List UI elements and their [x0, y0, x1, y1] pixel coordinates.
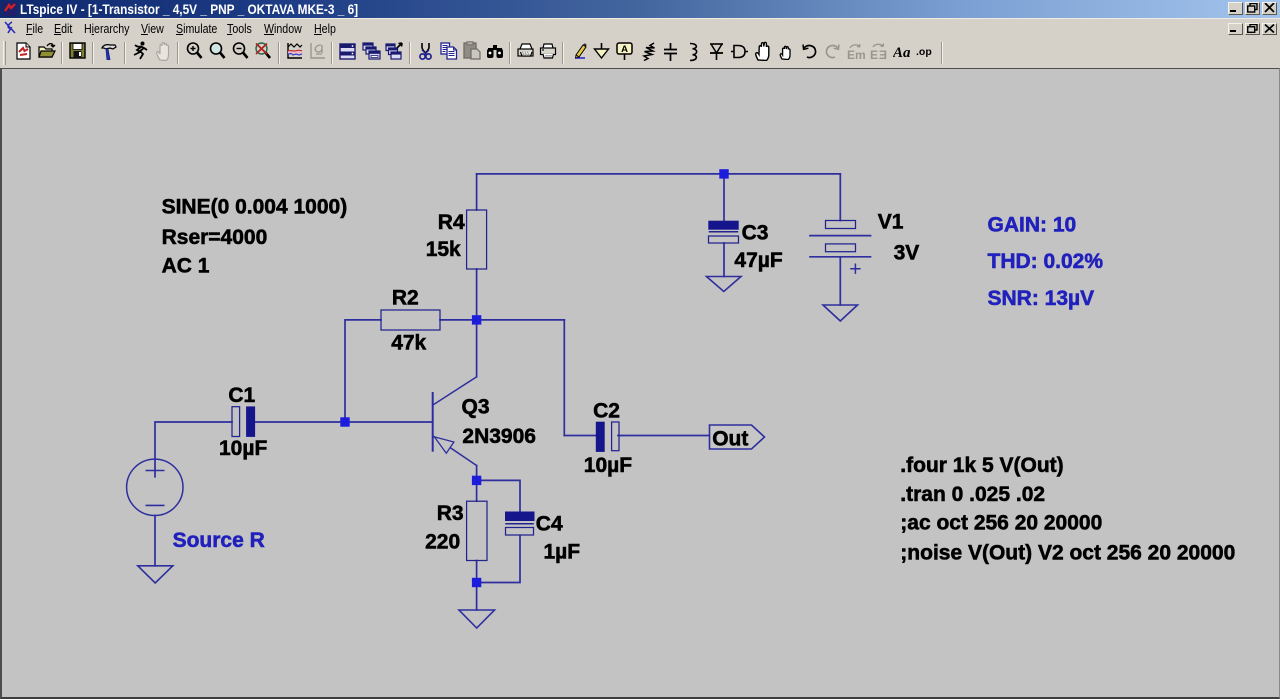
wire R2 right lead [440, 319, 477, 321]
wire to C2 left plate [564, 435, 595, 437]
wire C4 bottom to node F [477, 535, 520, 582]
resistor R4 [467, 210, 487, 269]
component gate icon [730, 44, 749, 59]
wire R4 bottom to node B [476, 269, 478, 320]
svg-text:C2: C2 [593, 400, 620, 423]
svg-text:Rser=4000: Rser=4000 [162, 226, 268, 249]
tile windows [339, 43, 356, 60]
capacitor C4 [505, 512, 580, 564]
wire node B to collector [476, 320, 478, 377]
paste (disabled) [463, 41, 481, 60]
rotate (disabled) [870, 43, 887, 61]
ground icon [593, 42, 610, 61]
svg-text:;noise V(Out) V2 oct 256 20 20: ;noise V(Out) V2 oct 256 20 20000 [900, 541, 1235, 564]
move hand [754, 41, 772, 61]
menu bar [0, 18, 1280, 38]
svg-text:C4: C4 [536, 512, 563, 535]
inductor icon [688, 42, 700, 62]
svg-text:C1: C1 [228, 384, 255, 407]
svg-text:.tran 0 .025 .02: .tran 0 .025 .02 [900, 483, 1045, 506]
svg-text:47k: 47k [391, 332, 426, 355]
svg-text:220: 220 [425, 530, 460, 553]
svg-text:3V: 3V [894, 241, 920, 264]
wire node E to R3 top [476, 480, 478, 501]
svg-text:SINE(0 0.004 1000): SINE(0 0.004 1000) [162, 195, 348, 218]
capacitor C2 [584, 400, 632, 477]
wire V1 top lead [839, 174, 841, 221]
toolbar [0, 38, 1280, 68]
wire source bottom lead [154, 516, 156, 566]
control panel hammer [100, 42, 118, 60]
wire V1 bottom lead [839, 257, 841, 305]
wire C3 bottom lead [723, 243, 725, 277]
undo [801, 44, 817, 59]
svg-text:10µF: 10µF [219, 437, 267, 460]
svg-text:47µF: 47µF [734, 249, 782, 272]
wire emitter to node E [476, 466, 478, 481]
svg-text:R2: R2 [392, 287, 419, 310]
svg-text:;ac oct 256 20 20000: ;ac oct 256 20 20000 [900, 512, 1102, 535]
wire node E to C4 top [477, 480, 520, 511]
redo (disabled) [825, 44, 841, 59]
find [486, 43, 504, 59]
resistor R3 [467, 501, 487, 560]
svg-text:SNR: 13µV: SNR: 13µV [988, 287, 1095, 310]
resistor R2 [381, 310, 440, 330]
wire node F to ground [476, 583, 478, 611]
wire C2 to Out flag [618, 435, 710, 437]
node junction emitter-R3-C4 [472, 476, 481, 485]
zoom cancel [253, 42, 272, 60]
label A [616, 42, 633, 61]
svg-text:E: E [879, 48, 887, 61]
svg-text:Q3: Q3 [462, 396, 490, 419]
svg-text:AC 1: AC 1 [162, 254, 210, 277]
Out port flag [710, 425, 765, 450]
wire R4 top lead [476, 174, 478, 210]
capacitor icon [663, 42, 678, 62]
capacitor C1 [219, 384, 267, 460]
mirror (disabled) [847, 43, 865, 61]
svg-text:THD: 0.02%: THD: 0.02% [988, 250, 1104, 273]
svg-text:E: E [870, 48, 878, 61]
fft (disabled) [309, 42, 326, 60]
svg-text:GAIN: 10: GAIN: 10 [988, 213, 1077, 236]
node junction R4-R2-collector [472, 315, 481, 324]
wire node B to right [477, 319, 565, 321]
svg-text:.four 1k 5 V(Out): .four 1k 5 V(Out) [900, 454, 1063, 477]
wire pencil [572, 42, 589, 61]
wire R3 bottom to node F [476, 561, 478, 583]
ground under C3 [707, 277, 742, 292]
capacitor C3 [708, 221, 783, 272]
node junction rail-C3 [719, 169, 728, 178]
svg-text:Aa: Aa [893, 45, 910, 60]
halt hand (disabled) [155, 42, 173, 61]
cascade arrow [385, 42, 404, 60]
drag hand [779, 44, 793, 60]
new schematic [16, 42, 32, 60]
zoom out [232, 42, 249, 60]
battery V1 [810, 211, 919, 273]
ground under source [138, 566, 173, 583]
svg-text:Source R: Source R [173, 529, 265, 552]
wire down to C2 level [563, 320, 565, 436]
voltage source V2 Source R [127, 459, 265, 552]
open [38, 43, 56, 60]
svg-text:C3: C3 [742, 222, 769, 245]
svg-text:.op: .op [916, 46, 932, 58]
svg-text:V1: V1 [878, 211, 904, 234]
zoom in [186, 42, 203, 60]
wire R2 left branch [345, 320, 381, 422]
svg-text:R4: R4 [438, 211, 465, 234]
title bar [0, 0, 1280, 18]
svg-text:R3: R3 [437, 502, 464, 525]
print setup [517, 43, 534, 60]
svg-text:Em: Em [847, 48, 865, 61]
diode icon [708, 42, 725, 62]
ground under V1 [823, 305, 858, 321]
wire source top to C1 [155, 422, 232, 477]
cut [419, 42, 432, 61]
text Aa [893, 43, 910, 60]
svg-text:1µF: 1µF [544, 541, 581, 564]
cascade [362, 42, 381, 60]
copy [440, 42, 458, 60]
ground under R3 [459, 610, 495, 628]
svg-text:2N3906: 2N3906 [462, 425, 536, 448]
wire C1 to Q3 base [255, 421, 432, 423]
node junction R3-C4-ground [472, 578, 481, 587]
svg-text:15k: 15k [426, 238, 461, 261]
waveform [286, 42, 303, 60]
resistor icon [641, 42, 657, 62]
print [539, 42, 557, 60]
wire C3 top lead [723, 174, 725, 221]
save [69, 42, 86, 59]
svg-text:A: A [621, 44, 628, 55]
svg-text:Out: Out [712, 427, 748, 450]
wire top rail from R4 to V1 [477, 173, 841, 175]
zoom extents [209, 42, 226, 60]
.op [915, 43, 935, 60]
svg-text:10µF: 10µF [584, 454, 632, 477]
transistor Q3 2N3906 [433, 377, 536, 466]
run man [131, 41, 148, 60]
node junction C1-R2-base [340, 417, 349, 426]
